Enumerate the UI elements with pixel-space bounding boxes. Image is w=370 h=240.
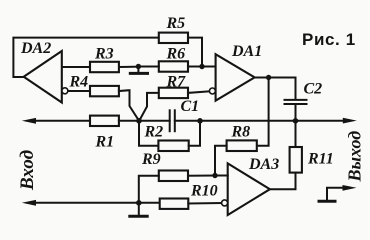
resistor R7 xyxy=(159,74,188,99)
capacitor C2 xyxy=(285,81,323,105)
wire R2 right up to node F xyxy=(189,121,200,146)
svg-text:DA2: DA2 xyxy=(20,40,51,57)
input terminal arrow (top input line) xyxy=(22,118,36,124)
wire R9 left down to node H xyxy=(139,176,159,203)
wire R6 left to node C xyxy=(138,66,158,68)
svg-text:Рис. 1: Рис. 1 xyxy=(302,30,356,49)
resistor R11 xyxy=(290,147,334,173)
node G (C2/R11/output junction) xyxy=(293,118,299,124)
svg-text:R7: R7 xyxy=(166,74,187,91)
wire node A to C1 xyxy=(139,120,170,122)
resistor R6 xyxy=(159,46,188,72)
wire R7 left down to node A xyxy=(140,93,159,120)
svg-text:R5: R5 xyxy=(166,15,186,32)
ground (at node C) xyxy=(130,67,147,74)
op-amp DA2 xyxy=(20,40,62,103)
common terminal (ground with arrow, bottom right) xyxy=(319,185,357,201)
wire DA2 inverting input to R4 xyxy=(68,90,90,92)
wire DA1 output to C2 top xyxy=(255,78,296,100)
wire R7 right to DA1 inverting input xyxy=(188,91,209,93)
resistor R9 xyxy=(141,151,188,181)
node D (DA1 output junction) xyxy=(266,75,271,80)
wire input line to R1 xyxy=(34,120,90,122)
wire R11 bottom to DA3 output xyxy=(270,173,296,190)
wire R5 right to node B xyxy=(188,38,202,67)
wire C2 bottom to output line xyxy=(295,104,297,121)
svg-text:R1: R1 xyxy=(95,134,115,151)
svg-text:R2: R2 xyxy=(144,124,164,141)
wire R1 right to node A xyxy=(119,120,139,122)
wire R3 right to node C xyxy=(119,66,138,68)
wire R9 right to node E xyxy=(188,175,215,177)
inverting input circle of DA3 xyxy=(222,200,228,206)
svg-text:R9: R9 xyxy=(141,151,161,168)
op-amp DA3 xyxy=(228,156,280,215)
svg-text:DA3: DA3 xyxy=(248,156,279,173)
wire node D down to R8 xyxy=(257,78,269,146)
resistor R5 xyxy=(159,15,188,43)
wire C1 to node F xyxy=(175,120,200,122)
node C (R3/R6/ground junction) xyxy=(136,64,141,69)
wire node E to DA3 noninverting input xyxy=(215,175,228,177)
node A (R1/R4/R7/C1 junction) xyxy=(136,118,142,124)
svg-text:R8: R8 xyxy=(231,124,251,141)
node E (R8/R9/DA3 junction) xyxy=(212,173,217,178)
svg-text:R11: R11 xyxy=(307,151,334,168)
wire DA2 noninverting input xyxy=(62,66,90,68)
capacitor C1 xyxy=(170,98,199,131)
op-amp DA1 xyxy=(216,43,263,101)
svg-text:Вход: Вход xyxy=(17,150,38,191)
resistor R3 xyxy=(90,46,119,73)
svg-text:C1: C1 xyxy=(181,98,200,115)
wire R10 right to DA3 inverting input xyxy=(188,202,221,205)
wire output line node F to right arrow xyxy=(200,120,344,122)
svg-text:Выход: Выход xyxy=(345,131,365,183)
inverting input circle of DA1 xyxy=(209,88,215,94)
wire DA2 output to R5 (left + top run) xyxy=(13,38,158,77)
node H (R9/ground/bottom line junction) xyxy=(136,200,142,206)
resistor R1 xyxy=(90,116,119,151)
resistor R2 xyxy=(144,124,189,152)
svg-text:DA1: DA1 xyxy=(231,43,262,60)
resistor R10 xyxy=(160,183,218,209)
svg-text:C2: C2 xyxy=(304,81,323,98)
wire R6 right to DA1 input xyxy=(188,66,216,68)
svg-text:R6: R6 xyxy=(166,46,186,63)
inverting input circle of DA2 xyxy=(62,88,68,94)
svg-text:R10: R10 xyxy=(190,183,218,200)
output terminal arrow xyxy=(343,118,357,124)
wire R4 right down to node A xyxy=(119,90,139,120)
resistor R4 xyxy=(69,74,119,97)
wire R8 left down to node E xyxy=(215,146,227,176)
resistor R8 xyxy=(227,124,257,152)
ground (at node H) xyxy=(130,203,147,217)
wire node A down to R2 xyxy=(139,121,158,146)
node F (C1/R2 right junction) xyxy=(197,118,203,124)
wire node G down to R11 xyxy=(295,121,297,147)
svg-text:R3: R3 xyxy=(94,46,114,63)
svg-text:R4: R4 xyxy=(69,74,89,91)
input terminal arrow (bottom input line) xyxy=(22,200,36,206)
wire bottom input line xyxy=(34,202,160,204)
node B (R5/R6/DA1 noninverting junction) xyxy=(199,64,204,69)
